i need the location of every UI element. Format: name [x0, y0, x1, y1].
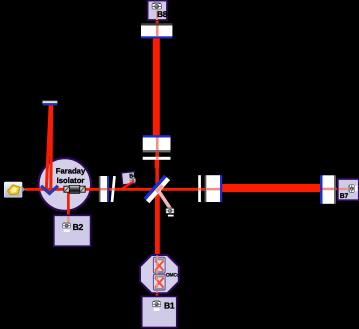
wire: B4 pickoff line: [121, 181, 134, 189]
power recycling mirror PRM: [99, 176, 109, 202]
wire: isolator rejected beam down to B2: [67, 193, 70, 223]
svg-text:OMCs: OMCs: [166, 272, 180, 278]
svg-text:B1: B1: [164, 300, 175, 310]
Faraday isolator vacuum tank (circle): [39, 158, 92, 211]
steering mirror chevron (blue V): [41, 186, 58, 194]
east ETM mirror: [320, 175, 336, 204]
detector B2 box: [54, 215, 91, 246]
small steering mirror top-left: [42, 101, 57, 104]
wire: OMC to B1 dashes: [156, 294, 159, 297]
wire: dashed beam through OMC: [156, 256, 158, 293]
laser L1: [4, 182, 25, 197]
wire: south beam beamsplitter to OMC octagon: [155, 191, 160, 255]
south pickoff photodiode icon: [166, 207, 174, 216]
main beamsplitter BS: [143, 175, 170, 203]
wire: B8 box to north ETM: [156, 20, 159, 24]
wire: line from east ETM to detector B7: [334, 188, 346, 191]
Faraday isolator element (polarizer-rotator-polarizer): [64, 185, 85, 193]
north ITM mirror: [143, 135, 171, 152]
wire: thick north arm cavity beam: [153, 38, 160, 136]
east ITM mirror: [205, 175, 223, 202]
wire: folded input beam going up to small steering mirror (two strokes): [46, 105, 50, 189]
OMC cavity 2: [153, 274, 165, 290]
wire: pink south pickoff beam: [159, 192, 170, 208]
north ETM mirror: [141, 23, 172, 38]
svg-text:B8: B8: [157, 9, 168, 19]
svg-text:B7: B7: [340, 193, 349, 200]
wire: north ITM to beamsplitter: [155, 152, 159, 188]
OMC octagon tank: [140, 255, 179, 293]
OMC cavity 1: [153, 257, 165, 273]
tilted thin plate west: [111, 176, 116, 202]
north thin compensation plate: [143, 157, 171, 160]
detector B1 box: [142, 296, 177, 327]
wire: thick east arm cavity beam: [220, 184, 320, 192]
detector B4 box (tilted): [121, 171, 137, 184]
svg-text:B2: B2: [73, 222, 84, 232]
detector B8 box: [148, 1, 168, 20]
svg-text:Isolator: Isolator: [57, 176, 85, 185]
east thin plate: [198, 175, 201, 202]
svg-text:Faraday: Faraday: [56, 166, 86, 175]
wire: main horizontal beam laser to east ITM: [25, 188, 222, 191]
wire: brighter overlap segment below north plate: [155, 160, 160, 168]
detector B7 box: [338, 179, 359, 200]
